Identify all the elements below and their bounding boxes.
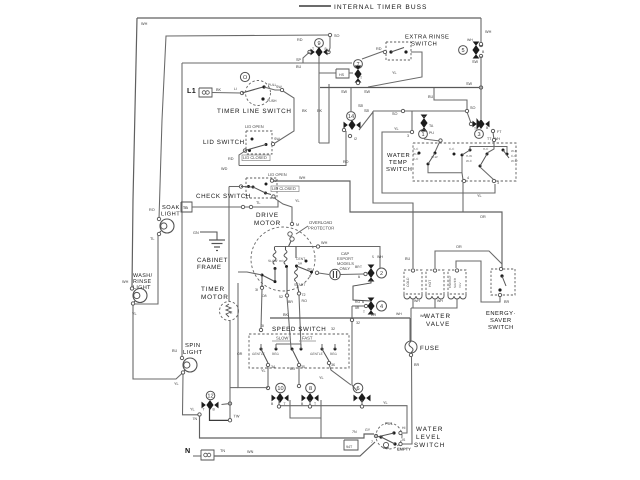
svg-text:4: 4 <box>467 176 469 180</box>
connector 12 diamond <box>202 402 206 409</box>
wire conn14 top <box>350 88 352 111</box>
drive motor circle <box>251 227 315 291</box>
wire ess to saver solenoid <box>456 261 500 302</box>
svg-text:SO: SO <box>470 106 476 110</box>
svg-text:SAVER: SAVER <box>490 317 512 324</box>
svg-text:BU: BU <box>405 257 411 261</box>
soak light <box>160 219 174 233</box>
svg-text:PU: PU <box>429 131 434 135</box>
wire 72 down <box>299 295 301 348</box>
connector 7 diamond <box>355 66 362 70</box>
connector 14 circle <box>347 112 356 121</box>
connector 7 circle <box>354 60 363 69</box>
timer line switch id circle <box>240 72 249 81</box>
svg-text:RD: RD <box>297 38 303 42</box>
svg-text:LIGHT: LIGHT <box>183 349 203 356</box>
connector 6 circle <box>353 383 363 393</box>
wire 31 down <box>261 289 262 328</box>
svg-text:GY: GY <box>365 428 371 432</box>
svg-text:VALVE: VALVE <box>426 321 450 328</box>
svg-text:5: 5 <box>461 48 464 54</box>
svg-text:FUSE: FUSE <box>420 345 440 352</box>
wire ss to conn10 <box>267 366 269 386</box>
wire check bottom exit <box>274 198 293 224</box>
wls arms <box>377 433 394 437</box>
svg-text:5A: 5A <box>298 262 303 266</box>
timer motor circle <box>220 302 239 321</box>
wire wash light lower rail <box>133 303 183 379</box>
wire wv to fuse <box>410 308 412 341</box>
svg-text:10: 10 <box>277 386 283 392</box>
connector 2 circle <box>377 268 387 278</box>
svg-text:LEVEL: LEVEL <box>416 434 441 441</box>
svg-text:7N: 7N <box>352 430 357 434</box>
svg-text:BU: BU <box>290 367 295 371</box>
connector 3 diamond <box>473 121 477 128</box>
svg-text:SPEED SWITCH: SPEED SWITCH <box>272 326 326 333</box>
main coil <box>284 250 287 264</box>
wire wv bottoms <box>412 299 414 308</box>
svg-text:HS: HS <box>339 73 345 77</box>
svg-text:BR: BR <box>504 300 510 304</box>
svg-text:SO: SO <box>392 112 398 116</box>
svg-text:HI: HI <box>402 426 405 430</box>
wire conn9 left stub <box>303 52 310 63</box>
wire hot up branch <box>435 251 502 268</box>
wire neutral <box>214 442 375 456</box>
svg-text:1: 1 <box>421 132 424 138</box>
wire bk under motor <box>270 317 410 319</box>
svg-text:M: M <box>296 223 299 227</box>
node SO top <box>328 33 331 36</box>
wire sw bus <box>320 87 481 89</box>
svg-text:9R: 9R <box>355 306 360 310</box>
svg-text:WH: WH <box>122 280 129 284</box>
wire conn3 right down <box>493 132 494 140</box>
svg-text:LID CLOSED: LID CLOSED <box>272 186 296 191</box>
wire rail to connector 3 <box>480 88 482 120</box>
speed switch box <box>249 334 349 368</box>
wire sb drop to yl loop <box>411 111 413 131</box>
t-line terminals <box>277 405 280 408</box>
wire tb line <box>192 200 278 207</box>
connector 9 diamond <box>311 49 315 56</box>
svg-text:SLOW: SLOW <box>268 259 277 263</box>
lid switch contacts <box>251 138 254 141</box>
terminal 7 wls <box>374 434 377 437</box>
wire conn12 T down bus <box>200 416 375 439</box>
svg-text:START: START <box>294 283 306 287</box>
wire check to right <box>274 181 502 269</box>
cent dot <box>305 260 308 263</box>
svg-text:EMPTY: EMPTY <box>397 447 411 452</box>
wire pivot to 31 <box>261 276 263 287</box>
start coil <box>295 267 298 281</box>
ess top terminal <box>499 267 502 270</box>
svg-text:SLOW: SLOW <box>276 336 288 341</box>
svg-text:N: N <box>185 446 191 455</box>
check switch arm <box>241 187 271 195</box>
svg-text:BK: BK <box>216 88 222 92</box>
svg-text:H-C: H-C <box>413 147 419 151</box>
connector 9 terminals <box>308 50 311 53</box>
wire conn1 top <box>423 116 425 117</box>
wire conn4 feed <box>351 306 353 318</box>
conn8 feed terminal <box>297 384 300 387</box>
svg-text:GENTLE: GENTLE <box>252 352 265 356</box>
connector 2 diamond <box>368 265 375 269</box>
terminal 31 ss <box>259 328 262 331</box>
svg-text:BK: BK <box>302 109 308 113</box>
svg-text:YL: YL <box>261 369 266 373</box>
wire motor or stub <box>238 272 262 275</box>
wire bu short <box>434 88 467 110</box>
lid switch arm <box>245 145 266 151</box>
svg-text:SWITCH: SWITCH <box>414 442 445 449</box>
conn2 left terminal <box>364 272 367 275</box>
water temp switch box <box>413 143 516 181</box>
wire fuse down <box>402 356 412 444</box>
svg-text:SWITCH: SWITCH <box>411 41 437 48</box>
check switch box <box>246 178 277 198</box>
wire wh to conn2 <box>320 247 380 269</box>
timer line switch sw terminal <box>280 88 283 91</box>
slow coil bottom <box>274 267 277 270</box>
wire yl loop <box>382 132 495 193</box>
wire conn12 B to TW <box>210 408 229 420</box>
svg-text:SB: SB <box>358 104 364 108</box>
svg-text:T: T <box>360 265 362 269</box>
svg-text:SW: SW <box>274 137 280 141</box>
energy saver switch box <box>491 269 515 295</box>
timer motor winding <box>226 304 231 317</box>
wire timer motor down <box>229 320 231 419</box>
connector 5 terminals <box>479 42 482 45</box>
svg-text:W-C: W-C <box>466 159 473 163</box>
svg-text:SOAK: SOAK <box>162 205 180 211</box>
svg-text:SP: SP <box>296 58 302 62</box>
wls diaphragm <box>383 442 388 447</box>
svg-text:VLV: VLV <box>458 283 462 288</box>
check exit bottom terminal <box>272 195 275 198</box>
soak light terminal bottom <box>157 232 160 235</box>
check switch exit top <box>270 179 273 182</box>
fuse F1 <box>405 341 417 353</box>
wire conn12 stub right <box>222 403 229 406</box>
extra rinse switch contacts <box>389 50 392 53</box>
svg-text:DRIVE: DRIVE <box>256 212 279 219</box>
svg-text:RD: RD <box>228 157 234 161</box>
svg-text:W-W: W-W <box>431 155 438 159</box>
wire lid left down <box>239 151 245 166</box>
connector 12 circle <box>206 391 215 400</box>
extra rinse switch box <box>386 42 411 60</box>
conn10 feed terminal <box>266 386 269 389</box>
svg-text:FILL: FILL <box>385 421 394 426</box>
svg-text:MOTOR: MOTOR <box>254 220 281 227</box>
svg-text:WATER: WATER <box>424 313 451 320</box>
wts bottom terminal 3 <box>492 179 495 182</box>
wire t-line 407 <box>279 406 407 433</box>
svg-text:BK: BK <box>283 313 289 317</box>
svg-text:3: 3 <box>497 181 499 185</box>
wts bottom terminal 4 <box>462 179 465 182</box>
drive motor top terminal <box>290 222 293 225</box>
svg-text:TL: TL <box>256 201 260 205</box>
svg-text:BU: BU <box>428 95 434 99</box>
svg-text:LID OPEN: LID OPEN <box>268 172 287 177</box>
connector 14 diamond <box>344 122 348 129</box>
svg-text:B: B <box>309 274 311 278</box>
svg-text:WH: WH <box>485 30 492 34</box>
hs box <box>336 69 349 78</box>
capacitor C1 <box>330 269 340 279</box>
connector 6 diamond <box>354 395 358 402</box>
connector 10 circle <box>276 383 286 393</box>
wire b-link <box>290 400 321 418</box>
svg-text:5: 5 <box>372 255 374 259</box>
ground lead <box>200 232 217 240</box>
spin light arm <box>183 370 185 372</box>
wire t-line 406 <box>278 400 280 406</box>
svg-text:O: O <box>243 75 248 81</box>
svg-text:52: 52 <box>279 295 283 299</box>
svg-text:O8: O8 <box>262 294 267 298</box>
svg-text:HOT: HOT <box>428 280 432 287</box>
water valve solenoid boxes <box>404 270 422 294</box>
connector 3 terminals <box>469 122 472 125</box>
lid switch sw terminal <box>271 142 274 145</box>
junction sw bus right <box>479 86 482 89</box>
svg-text:RD: RD <box>376 47 382 51</box>
svg-text:4: 4 <box>380 304 383 310</box>
svg-text:TB: TB <box>183 206 188 210</box>
check switch contacts <box>247 185 250 188</box>
motor bottom terminal 52 <box>285 294 288 297</box>
svg-text:T: T <box>203 408 205 412</box>
spin light terminal top <box>180 356 183 359</box>
svg-text:35: 35 <box>301 365 305 369</box>
check switch pivot <box>239 185 242 188</box>
svg-text:LID OPEN: LID OPEN <box>245 124 264 129</box>
svg-text:8: 8 <box>309 386 312 392</box>
svg-text:RD: RD <box>343 160 349 164</box>
svg-text:36: 36 <box>331 363 335 367</box>
svg-text:WN: WN <box>247 450 254 454</box>
svg-text:H-W: H-W <box>466 154 472 158</box>
connector 14 terminals <box>342 128 345 131</box>
svg-text:T: T <box>363 310 365 314</box>
svg-text:9: 9 <box>317 41 320 47</box>
svg-text:SB: SB <box>364 109 370 113</box>
wire conn9 right to SO <box>329 36 331 52</box>
wire conn4 left <box>352 305 366 307</box>
svg-text:WH: WH <box>299 176 306 180</box>
svg-text:L1: L1 <box>187 86 196 95</box>
connector 8 diamond <box>302 395 306 402</box>
svg-text:TL: TL <box>150 237 154 241</box>
tb line terminals <box>241 205 244 208</box>
svg-text:SW: SW <box>276 85 282 89</box>
svg-text:ENERGY·: ENERGY· <box>486 310 516 317</box>
svg-text:BR: BR <box>371 313 377 317</box>
svg-text:C-C: C-C <box>511 154 517 158</box>
overload protector symbol <box>288 232 292 236</box>
wash light terminal top <box>130 287 133 290</box>
svg-text:MOTOR: MOTOR <box>201 294 229 301</box>
wire conn14 left down <box>345 131 347 166</box>
svg-text:OR: OR <box>237 352 243 356</box>
svg-text:GN: GN <box>193 231 199 235</box>
ess contacts <box>500 274 503 277</box>
svg-text:LID CLOSED: LID CLOSED <box>243 155 267 160</box>
wire start to cap <box>319 273 330 275</box>
wire ss to conn8 <box>298 366 300 384</box>
svg-text:T: T <box>474 127 476 131</box>
svg-text:32: 32 <box>331 327 335 331</box>
wire sb-so line <box>373 110 467 112</box>
svg-text:32: 32 <box>356 321 360 325</box>
timer line switch pull contact <box>262 85 265 88</box>
ground symbol <box>209 239 225 241</box>
wls hi contact <box>392 431 395 434</box>
svg-text:W-C: W-C <box>511 149 518 153</box>
svg-text:RO: RO <box>279 259 284 263</box>
connector 8 circle <box>306 383 316 393</box>
terminal 32 on bk line <box>350 318 353 321</box>
wire b-link drop <box>320 418 322 438</box>
wire start coil to 72 <box>297 282 300 293</box>
svg-text:YL: YL <box>190 408 195 412</box>
speed switch contacts <box>260 348 263 351</box>
wire wts4 drop <box>462 183 464 212</box>
wire conn14 right diag <box>359 112 373 130</box>
wire bu rail <box>373 111 413 268</box>
motor wh exit terminal <box>316 245 319 248</box>
wire cap to conn2 <box>341 273 365 276</box>
wire spin rail <box>181 63 183 357</box>
svg-text:B: B <box>358 275 360 279</box>
svg-text:OVERLOAD: OVERLOAD <box>309 220 332 225</box>
wire soak rail up <box>159 35 329 219</box>
svg-text:YL: YL <box>394 127 399 131</box>
wire hs stubs <box>319 72 336 74</box>
wire top inner horizontal to connector 7 <box>182 62 352 64</box>
svg-text:C-C: C-C <box>449 147 455 151</box>
n terminal box <box>201 450 214 460</box>
svg-text:OR: OR <box>480 215 486 219</box>
wire L1 to switch <box>212 92 241 95</box>
wire soak-to-wash link <box>135 234 158 304</box>
timer line switch pivot <box>240 91 243 94</box>
wire 52 down <box>287 297 291 348</box>
svg-text:W-W: W-W <box>511 159 518 163</box>
internal timer buss legend line <box>299 5 331 7</box>
wash light terminal bottom <box>131 302 134 305</box>
water level switch circle <box>376 423 402 449</box>
svg-text:EXTRA RINSE: EXTRA RINSE <box>405 34 449 41</box>
svg-text:CHECK SWITCH: CHECK SWITCH <box>196 193 251 200</box>
svg-text:BR: BR <box>414 363 420 367</box>
svg-text:3A: 3A <box>271 365 276 369</box>
spin light terminal bottom <box>181 371 184 374</box>
svg-text:WATER: WATER <box>416 426 444 433</box>
svg-text:TA: TA <box>429 124 434 128</box>
lid switch box <box>246 131 272 154</box>
wire bk rail 319 <box>318 87 320 143</box>
wire frame top <box>137 17 481 19</box>
svg-text:WATER: WATER <box>387 153 410 159</box>
terminal yl loop <box>410 130 413 133</box>
motor left arm <box>262 275 275 282</box>
947 box <box>344 440 358 450</box>
wire timer motor up <box>228 187 230 302</box>
svg-text:BR: BR <box>288 300 293 304</box>
connector 4 diamond <box>368 298 375 302</box>
svg-text:CABINET: CABINET <box>197 257 228 264</box>
terminal TW <box>228 419 231 422</box>
svg-text:WD: WD <box>221 167 228 171</box>
svg-text:3: 3 <box>477 132 480 138</box>
fuse bottom terminal <box>409 353 412 356</box>
svg-text:7N: 7N <box>193 417 198 421</box>
connector 1 circle <box>419 130 428 139</box>
wire spin bottom to conn12 <box>183 374 199 415</box>
connector 7 bottom terminal <box>356 81 359 84</box>
svg-text:WH: WH <box>377 255 383 259</box>
svg-text:94T: 94T <box>346 445 353 449</box>
svg-text:SO: SO <box>334 34 340 38</box>
svg-text:ONLY: ONLY <box>340 266 351 271</box>
wire pull to sw <box>264 87 281 90</box>
wire rd line to conn14 <box>239 165 346 167</box>
svg-text:RO: RO <box>302 299 308 303</box>
svg-text:14: 14 <box>348 114 354 120</box>
svg-text:H-C: H-C <box>483 147 489 151</box>
svg-text:LI: LI <box>234 87 237 91</box>
connector 3 circle <box>475 130 484 139</box>
connector 10 diamond <box>272 395 276 402</box>
terminal SO2 <box>465 109 468 112</box>
svg-text:12: 12 <box>207 394 213 400</box>
svg-text:W-C: W-C <box>413 152 420 156</box>
svg-text:YL: YL <box>174 382 179 386</box>
svg-text:BU: BU <box>172 349 178 353</box>
svg-text:TIMER LINE SWITCH: TIMER LINE SWITCH <box>217 108 292 115</box>
wire conn2-conn4 bracket <box>353 280 371 301</box>
svg-text:PUSH: PUSH <box>267 99 277 103</box>
svg-text:SWITCH: SWITCH <box>386 166 412 173</box>
svg-text:YL: YL <box>132 312 137 316</box>
wire conn9 bottom rail <box>318 56 320 87</box>
svg-text:INTERNAL TIMER BUSS: INTERNAL TIMER BUSS <box>334 4 427 11</box>
svg-text:BU: BU <box>296 65 302 69</box>
connector 4 circle <box>377 301 387 311</box>
svg-text:YL: YL <box>392 71 397 75</box>
svg-text:REG: REG <box>272 352 279 356</box>
wash light <box>133 289 147 303</box>
lid switch pivot <box>243 149 246 152</box>
svg-text:T: T <box>360 76 362 80</box>
soak light arm <box>159 231 161 233</box>
svg-text:CENT: CENT <box>296 257 305 261</box>
svg-text:GENTLE: GENTLE <box>310 352 323 356</box>
connector 1 diamond <box>421 115 428 119</box>
soak light terminal top <box>157 217 160 220</box>
svg-text:I2: I2 <box>354 137 357 141</box>
wire check pivot left <box>229 186 240 188</box>
svg-text:C-C: C-C <box>413 157 419 161</box>
